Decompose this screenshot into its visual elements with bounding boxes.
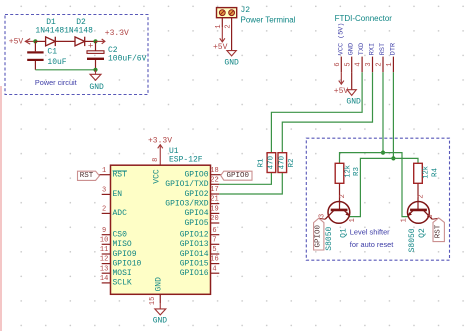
resistor R2 (278, 153, 296, 173)
svg-text:RST: RST (379, 43, 387, 55)
label GPIO0 flag (221, 171, 252, 180)
wire bottom bus (35, 69, 95, 71)
svg-text:Q1: Q1 (339, 228, 348, 238)
capacitor C2 (polarized) (87, 41, 147, 69)
sheet edge line (0, 86, 2, 331)
svg-text:1N4148: 1N4148 (35, 27, 64, 36)
connector J2 (217, 6, 296, 24)
wire DTR down (392, 72, 394, 158)
svg-text:RXI: RXI (369, 43, 377, 55)
svg-text:19: 19 (210, 206, 218, 214)
svg-text:GPIO15: GPIO15 (180, 259, 209, 268)
svg-text:3: 3 (427, 214, 435, 218)
svg-text:GPIO0: GPIO0 (227, 172, 250, 180)
svg-text:GND: GND (348, 43, 356, 55)
svg-text:1: 1 (386, 62, 394, 66)
svg-text:12k: 12k (423, 166, 431, 179)
svg-text:RST: RST (113, 171, 128, 180)
pin 1 DTR (386, 43, 397, 72)
power +3.3V symbol (96, 29, 130, 44)
power +5V symbol (J2) (213, 27, 228, 52)
svg-text:MISO: MISO (113, 240, 132, 249)
node GND junction (93, 68, 97, 72)
power +5V symbol (FTDI) (334, 72, 349, 96)
pin 17 GPIO2 (211, 193, 220, 195)
svg-text:EN: EN (113, 190, 123, 199)
svg-text:100uF/6V: 100uF/6V (108, 55, 147, 64)
svg-text:GPIO5: GPIO5 (184, 219, 208, 228)
svg-text:9: 9 (102, 227, 106, 235)
wire TXD to R1 (271, 72, 362, 153)
power circuit dashed box (5, 15, 148, 95)
label RST flag (level shifter) (433, 218, 444, 242)
pin 12 GPIO10 (102, 263, 111, 265)
svg-text:GND: GND (89, 83, 104, 92)
svg-text:4: 4 (212, 265, 216, 273)
pin 4 TXD (355, 43, 366, 72)
op-amp U1 body (111, 147, 211, 294)
level shifter dashed box (306, 138, 449, 260)
svg-text:+3.3V: +3.3V (105, 29, 129, 38)
svg-text:22: 22 (210, 176, 218, 184)
svg-text:5: 5 (344, 62, 352, 66)
ground (power circuit) (89, 70, 104, 92)
svg-text:12k: 12k (345, 165, 353, 178)
svg-text:21: 21 (210, 196, 218, 204)
ground (J2) (224, 51, 239, 68)
svg-text:6: 6 (212, 227, 216, 235)
svg-text:Level shifter: Level shifter (350, 228, 390, 237)
resistor R3 (335, 163, 361, 183)
capacitor C1 (27, 41, 67, 69)
svg-text:4: 4 (355, 62, 363, 66)
svg-text:1: 1 (349, 218, 357, 222)
svg-text:3: 3 (319, 214, 327, 218)
svg-text:GPIO1/TXD: GPIO1/TXD (165, 180, 208, 189)
svg-text:+5V: +5V (213, 43, 228, 52)
svg-text:2: 2 (102, 206, 106, 214)
transistor Q1 (319, 183, 357, 250)
svg-text:S8050: S8050 (325, 227, 334, 251)
pin 18 GPIO0 (211, 174, 221, 176)
svg-text:FTDI-Connector: FTDI-Connector (335, 14, 393, 23)
power +3.3V symbol (U1) (148, 136, 172, 165)
svg-text:RST: RST (80, 172, 94, 180)
node RST junction (381, 151, 385, 155)
svg-text:13: 13 (100, 265, 108, 273)
pin 6 GPIO12 (211, 234, 220, 236)
svg-text:3: 3 (365, 62, 373, 66)
svg-text:2: 2 (376, 62, 384, 66)
svg-text:470: 470 (267, 155, 275, 169)
svg-text:11: 11 (100, 246, 108, 254)
wire RST net (340, 153, 408, 217)
svg-text:2: 2 (417, 194, 425, 198)
svg-text:14: 14 (100, 275, 108, 283)
svg-text:GPIO9: GPIO9 (113, 250, 137, 259)
svg-text:SCLK: SCLK (113, 279, 132, 288)
power +5V symbol (9, 38, 36, 47)
svg-text:1N4148: 1N4148 (64, 27, 93, 36)
svg-text:16: 16 (210, 256, 218, 264)
svg-text:1: 1 (400, 218, 408, 222)
svg-text:GPIO12: GPIO12 (180, 231, 209, 240)
svg-text:CS0: CS0 (113, 231, 128, 240)
svg-text:10uF: 10uF (47, 58, 66, 67)
svg-text:MOSI: MOSI (113, 269, 132, 278)
svg-text:470: 470 (278, 155, 286, 169)
svg-text:J2: J2 (241, 6, 251, 15)
diode D1 (35, 18, 75, 46)
wire GPIO1/TXD to R1 (219, 173, 271, 185)
svg-text:Power circuit: Power circuit (35, 78, 77, 87)
svg-text:S8050: S8050 (408, 228, 417, 252)
svg-text:C1: C1 (47, 48, 57, 57)
pin 21 GPIO3/RXD (211, 203, 220, 205)
pin 3 EN (102, 193, 111, 195)
svg-text:ESP-12F: ESP-12F (169, 155, 203, 164)
svg-text:R2: R2 (288, 158, 296, 167)
diode D2 (64, 18, 95, 46)
svg-text:GPIO0: GPIO0 (184, 171, 208, 180)
svg-text:3: 3 (102, 187, 106, 195)
pin 1 of J2 (221, 18, 223, 27)
svg-text:VCC: VCC (153, 169, 162, 184)
svg-text:GPIO3/RXD: GPIO3/RXD (165, 199, 208, 208)
pin 2 ADC (102, 212, 111, 214)
svg-text:Q2: Q2 (418, 228, 427, 238)
pin 20 GPIO5 (211, 222, 220, 224)
pin 10 MISO (102, 243, 111, 245)
svg-text:2: 2 (225, 24, 233, 28)
pin 15 GND (159, 294, 161, 303)
svg-text:2: 2 (339, 194, 347, 198)
wire GPIO2 to R2 (219, 173, 282, 195)
svg-text:18: 18 (210, 167, 218, 175)
ground (U1) (153, 303, 168, 325)
label GPIO0 flag (level shifter) (314, 218, 324, 250)
ground (FTDI) (346, 72, 361, 106)
svg-text:GPIO14: GPIO14 (180, 250, 209, 259)
svg-text:R1: R1 (257, 158, 265, 168)
svg-text:GPIO2: GPIO2 (184, 190, 208, 199)
resistor R1 (257, 153, 275, 173)
pin 5 GND (344, 43, 355, 72)
pin 1 RST (99, 174, 110, 176)
pin 9 CS0 (102, 234, 111, 236)
wire RST down (382, 72, 384, 152)
svg-text:Power Terminal: Power Terminal (241, 15, 296, 24)
svg-text:ADC: ADC (113, 209, 128, 218)
svg-text:GND: GND (224, 58, 239, 67)
svg-text:GPIO4: GPIO4 (184, 209, 208, 218)
svg-text:R3: R3 (353, 167, 361, 177)
svg-text:7: 7 (212, 236, 216, 244)
wire RXI to R2 (282, 72, 372, 153)
svg-text:+5V: +5V (9, 38, 24, 47)
pin 19 GPIO4 (211, 212, 220, 214)
svg-text:GPIO10: GPIO10 (113, 259, 142, 268)
pin 6 VCC(5V) (334, 23, 345, 73)
svg-text:GPIO13: GPIO13 (180, 240, 209, 249)
svg-text:GPIO0: GPIO0 (315, 224, 323, 247)
label RST flag (78, 171, 100, 180)
svg-text:TXD: TXD (358, 43, 366, 55)
svg-text:RST: RST (435, 224, 443, 238)
svg-text:DTR: DTR (389, 43, 397, 55)
svg-text:1: 1 (102, 167, 106, 175)
pin 14 SCLK (102, 282, 111, 284)
pin 2 of J2 (231, 18, 233, 51)
pin 13 MOSI (102, 272, 111, 274)
pin 3 RXI (365, 43, 376, 72)
svg-text:17: 17 (210, 186, 218, 194)
svg-text:GPIO16: GPIO16 (180, 269, 209, 278)
svg-text:+5V: +5V (334, 87, 349, 96)
svg-text:12: 12 (100, 256, 108, 264)
pin 2 RST (376, 43, 387, 72)
svg-text:6: 6 (334, 62, 342, 66)
svg-text:10: 10 (100, 236, 108, 244)
resistor R4 (414, 163, 440, 183)
pin 5 GPIO14 (211, 253, 220, 255)
node DTR junction (391, 156, 395, 160)
wire DTR net (349, 158, 418, 216)
transistor Q2 (400, 183, 438, 252)
node +3.3V junction (93, 39, 97, 43)
svg-text:R4: R4 (432, 168, 440, 178)
pin 7 GPIO13 (211, 243, 220, 245)
svg-text:for auto reset: for auto reset (350, 240, 394, 249)
pin 22 GPIO1/TXD (211, 183, 220, 185)
svg-text:5: 5 (212, 246, 216, 254)
svg-text:20: 20 (210, 215, 218, 223)
svg-text:GND: GND (346, 98, 361, 107)
svg-text:VCC (5V): VCC (5V) (337, 23, 345, 56)
svg-text:15: 15 (149, 297, 157, 305)
pin 16 GPIO15 (211, 263, 220, 265)
node +5V junction (33, 39, 37, 43)
pin 4 GPIO16 (211, 272, 220, 274)
svg-text:GND: GND (153, 316, 168, 325)
svg-text:+: + (88, 42, 93, 52)
svg-text:GND: GND (155, 277, 164, 292)
pin 11 GPIO9 (102, 253, 111, 255)
svg-text:8: 8 (152, 158, 160, 162)
